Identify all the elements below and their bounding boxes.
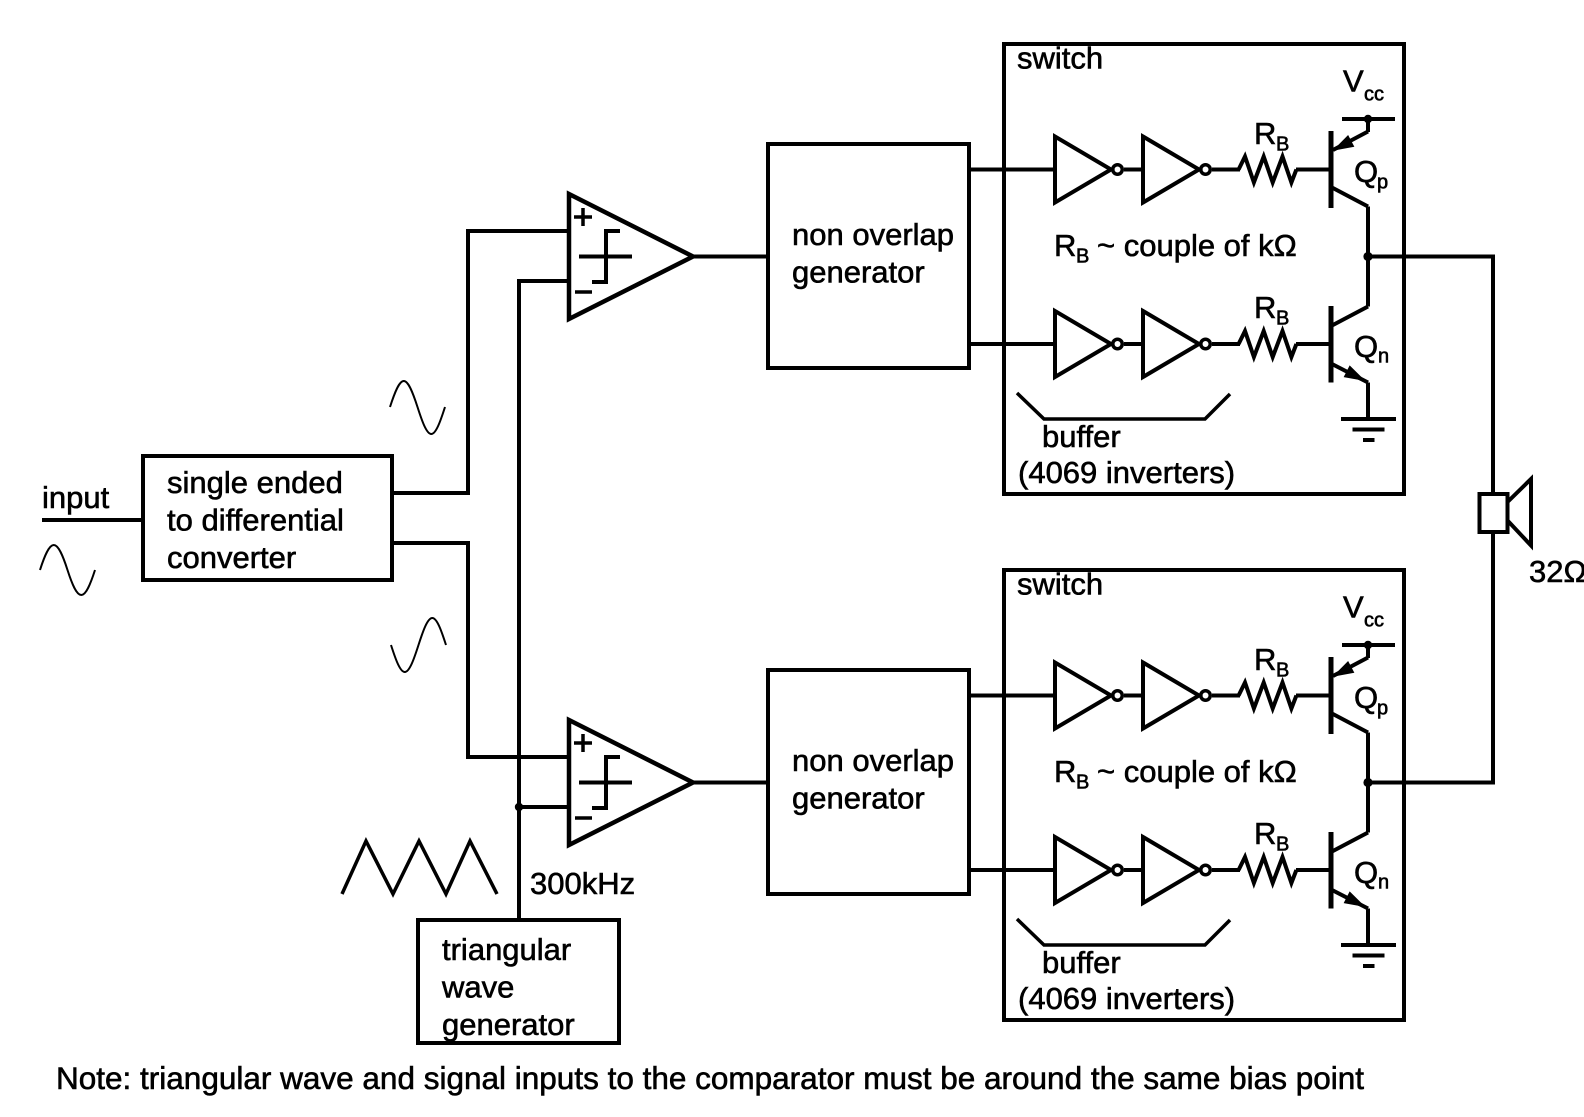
svg-text:triangular: triangular (442, 932, 571, 967)
inverter B1a (1055, 663, 1122, 729)
svg-text:B: B (1076, 772, 1089, 794)
triangular wave generator box (418, 920, 619, 1043)
svg-text:(4069 inverters): (4069 inverters) (1018, 455, 1235, 490)
svg-text:n: n (1378, 346, 1389, 368)
svg-text:non overlap: non overlap (792, 217, 954, 252)
wire output node to speaker line (A) (1368, 255, 1495, 259)
wire comparator U2 minus input (519, 805, 569, 809)
wire output node to speaker line (B) (1368, 781, 1495, 785)
svg-text:generator: generator (792, 781, 925, 816)
non overlap generator box A (768, 144, 969, 368)
label RB value note (A) (1054, 228, 1297, 268)
wire B lower to resistor (1212, 868, 1240, 872)
svg-text:switch: switch (1017, 567, 1103, 602)
wire B upper resistor to Qp base (1296, 694, 1333, 698)
svg-text:B: B (1276, 308, 1289, 330)
node output (A) (1363, 252, 1372, 261)
transistor Qn (A) (1331, 257, 1389, 422)
label 300kHz (530, 866, 635, 901)
wire B lower resistor to Qn base (1296, 868, 1333, 872)
wire A lower resistor to Qn base (1296, 342, 1333, 346)
wire input (42, 518, 145, 522)
wire converter output top (392, 491, 470, 495)
wire non overlap A output 1 (969, 168, 1057, 172)
wire non overlap A output 2 (969, 342, 1057, 346)
svg-text:n: n (1378, 872, 1389, 894)
svg-text:Q: Q (1354, 329, 1378, 364)
sine wave phase A symbol (390, 381, 445, 434)
label 4069 inverters (A) (1018, 455, 1235, 490)
node output (B) (1363, 778, 1372, 787)
svg-text:cc: cc (1364, 610, 1384, 632)
svg-text:Q: Q (1354, 680, 1378, 715)
wire triangle-wave bus vertical (517, 279, 521, 922)
svg-text:non overlap: non overlap (792, 743, 954, 778)
svg-text:Q: Q (1354, 154, 1378, 189)
svg-text:R: R (1054, 754, 1076, 789)
resistor RB (B lower) (1239, 816, 1297, 883)
svg-text:V: V (1343, 64, 1364, 99)
svg-text:R: R (1254, 816, 1276, 851)
svg-text:~ couple of kΩ: ~ couple of kΩ (1097, 754, 1297, 789)
svg-text:cc: cc (1364, 84, 1384, 106)
svg-text:(4069 inverters): (4069 inverters) (1018, 981, 1235, 1016)
svg-text:300kHz: 300kHz (530, 866, 635, 901)
wire B upper to resistor (1212, 694, 1240, 698)
svg-text:p: p (1377, 172, 1388, 194)
comparator U1 (top) (569, 194, 693, 319)
svg-text:generator: generator (442, 1007, 575, 1042)
wire A upper between inverters (1124, 168, 1145, 172)
label buffer (A) (1042, 419, 1121, 454)
inverter A2b (1143, 311, 1210, 377)
Vcc supply (A) (1342, 64, 1395, 124)
svg-text:single ended: single ended (167, 465, 343, 500)
svg-text:R: R (1254, 642, 1276, 677)
svg-text:buffer: buffer (1042, 419, 1121, 454)
svg-text:R: R (1054, 228, 1076, 263)
buffer brace (B) (1017, 919, 1230, 945)
wire A upper resistor to Qp base (1296, 168, 1333, 172)
inverter A1b (1143, 137, 1210, 203)
svg-text:to differential: to differential (167, 503, 344, 538)
wire B lower between inverters (1124, 868, 1145, 872)
svg-text:converter: converter (167, 540, 296, 575)
inverter B2b (1143, 837, 1210, 903)
triangle wave symbol (342, 841, 497, 894)
input label (42, 480, 110, 515)
wire A upper to resistor (1212, 168, 1240, 172)
inverter B1b (1143, 663, 1210, 729)
ground (B) (1341, 945, 1396, 966)
inverter A2a (1055, 311, 1122, 377)
svg-text:B: B (1276, 134, 1289, 156)
label 4069 inverters (B) (1018, 981, 1235, 1016)
wire converter output bottom (392, 541, 470, 545)
wire vertical to comparator A plus (466, 229, 470, 495)
wire comparator U1 output (693, 255, 770, 259)
note text (56, 1060, 1364, 1096)
wire comparator U1 plus input (466, 229, 569, 233)
non overlap generator box B (768, 670, 969, 894)
input sine wave (40, 545, 95, 595)
wire A lower between inverters (1124, 342, 1145, 346)
wire vertical to comparator B plus (466, 541, 470, 759)
svg-text:Note: triangular wave and sign: Note: triangular wave and signal inputs … (56, 1060, 1364, 1096)
transistor Qp (A) (1331, 119, 1388, 257)
svg-text:p: p (1377, 698, 1388, 720)
svg-text:R: R (1254, 290, 1276, 325)
sine wave phase B symbol (391, 618, 446, 672)
svg-text:V: V (1343, 590, 1364, 625)
svg-text:B: B (1276, 834, 1289, 856)
Vcc supply (B) (1342, 590, 1395, 650)
comparator U2 (bottom) (569, 720, 693, 845)
svg-text:generator: generator (792, 255, 925, 290)
inverter A1a (1055, 137, 1122, 203)
svg-text:R: R (1254, 116, 1276, 151)
svg-text:B: B (1276, 660, 1289, 682)
wire speaker vertical upper (1491, 257, 1495, 497)
wire speaker vertical lower (1491, 530, 1495, 783)
wire A lower to resistor (1212, 342, 1240, 346)
buffer brace (A) (1017, 393, 1230, 419)
resistor RB (A upper) (1239, 116, 1297, 183)
wire comparator U2 plus input (466, 755, 569, 759)
svg-text:input: input (42, 480, 110, 515)
speaker 32 ohm (1480, 479, 1584, 589)
svg-text:~ couple of kΩ: ~ couple of kΩ (1097, 228, 1297, 263)
wire non overlap B output 2 (969, 868, 1057, 872)
node triangle-wave junction (515, 803, 523, 811)
ground (A) (1341, 419, 1396, 440)
label RB value note (B) (1054, 754, 1297, 794)
inverter B2a (1055, 837, 1122, 903)
wire non overlap B output 1 (969, 694, 1057, 698)
svg-text:switch: switch (1017, 41, 1103, 76)
svg-text:32Ω: 32Ω (1529, 554, 1584, 589)
svg-text:Q: Q (1354, 855, 1378, 890)
wire comparator U1 minus input (519, 279, 569, 283)
resistor RB (B upper) (1239, 642, 1297, 709)
transistor Qp (B) (1331, 645, 1388, 783)
single ended to differential converter box (143, 456, 392, 580)
wire comparator U2 output (693, 781, 770, 785)
transistor Qn (B) (1331, 783, 1389, 948)
switch box A (1004, 41, 1404, 495)
switch box B (1004, 567, 1404, 1021)
label buffer (B) (1042, 945, 1121, 980)
resistor RB (A lower) (1239, 290, 1297, 357)
svg-text:B: B (1076, 246, 1089, 268)
svg-text:wave: wave (441, 970, 514, 1005)
svg-text:buffer: buffer (1042, 945, 1121, 980)
wire B upper between inverters (1124, 694, 1145, 698)
